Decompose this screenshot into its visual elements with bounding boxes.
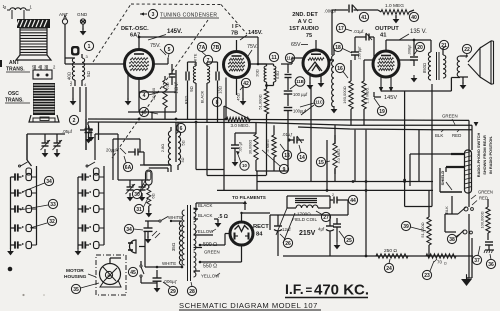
to filaments — [196, 195, 266, 210]
callout 35 — [71, 283, 99, 294]
wave-band switch bank 1 — [7, 162, 36, 255]
svg-text:BLK: BLK — [435, 133, 443, 138]
svg-text:4Ω: 4Ω — [181, 157, 185, 162]
tube V5 RECT 84 — [230, 222, 253, 245]
215V label — [299, 230, 316, 237]
svg-text:38: 38 — [449, 237, 455, 243]
svg-text:11B: 11B — [296, 79, 303, 84]
svg-text:16: 16 — [337, 66, 343, 72]
svg-text:TO FILAMENTS: TO FILAMENTS — [232, 195, 266, 200]
svg-text:WHITE: WHITE — [193, 53, 198, 66]
resistor 1.0MEG top — [378, 3, 414, 23]
45ohm + ground — [236, 85, 247, 105]
DET-OSC label — [121, 26, 149, 39]
osc pins + ground — [70, 82, 87, 150]
svg-text:84: 84 — [256, 232, 263, 238]
svg-text:20: 20 — [417, 45, 423, 51]
svg-text:BLK: BLK — [444, 206, 449, 214]
svg-text:145V.: 145V. — [248, 30, 263, 36]
callout 26 — [280, 234, 293, 248]
callout 34 — [22, 176, 54, 192]
svg-text:14: 14 — [299, 155, 305, 161]
callout 6A — [123, 156, 132, 172]
svg-text:850Ω: 850Ω — [422, 63, 427, 73]
svg-text:OSC: OSC — [8, 91, 19, 97]
svg-text:42: 42 — [243, 81, 249, 87]
callout 23 — [422, 261, 434, 280]
electrolytic 4uf — [318, 215, 334, 256]
svg-text:YELLOW: YELLOW — [201, 274, 220, 279]
svg-text:OUTPUT: OUTPUT — [375, 26, 399, 32]
resistor 30000 — [249, 123, 259, 172]
oscillator transformer (canned) — [29, 83, 59, 122]
svg-text:1.0 MEG.: 1.0 MEG. — [365, 87, 370, 104]
output transformer — [437, 46, 469, 89]
svg-text:20µµf: 20µµf — [106, 148, 117, 153]
resistor 160000 — [342, 60, 353, 109]
output label — [375, 26, 399, 39]
ballast coil 35ohm — [171, 221, 182, 265]
callout 45 — [128, 267, 137, 276]
svg-text:7: 7 — [207, 58, 210, 64]
svg-text:.006µƒ: .006µƒ — [163, 279, 178, 284]
svg-text:26: 26 — [285, 241, 291, 247]
svg-text:7A: 7A — [199, 45, 206, 51]
svg-text:ANT: ANT — [9, 60, 19, 66]
svg-text:RADIO-PHONO SWITCH: RADIO-PHONO SWITCH — [476, 133, 481, 178]
svg-text:5Ω: 5Ω — [86, 70, 91, 76]
RECT label — [253, 224, 269, 238]
svg-text:3: 3 — [152, 12, 155, 18]
OSC TRANS. label — [5, 91, 30, 104]
switch to ground — [461, 214, 472, 286]
callout 1 — [84, 41, 93, 50]
svg-text:23: 23 — [424, 273, 430, 279]
svg-text:10: 10 — [242, 163, 247, 168]
svg-text:75V.: 75V. — [247, 44, 258, 50]
svg-text:44: 44 — [350, 198, 356, 204]
bank wires — [27, 134, 95, 166]
svg-text:51,000Ω: 51,000Ω — [258, 94, 263, 109]
callout 17 + .01uf cap — [336, 23, 374, 40]
volume control coil wiper — [331, 48, 338, 113]
MOTOR HOUSING label — [64, 268, 96, 280]
svg-text:2ND. DET: 2ND. DET — [292, 12, 318, 18]
resistor 3meg label — [224, 106, 251, 128]
svg-text:2: 2 — [73, 118, 76, 124]
cap 25 path — [333, 218, 341, 249]
svg-text:41: 41 — [361, 15, 367, 21]
svg-text:5: 5 — [168, 47, 171, 53]
resistor 51000 — [258, 89, 269, 176]
65V label — [291, 42, 308, 48]
grid cap connector — [71, 46, 80, 56]
svg-text:36: 36 — [488, 262, 494, 268]
svg-text:160,000Ω: 160,000Ω — [342, 86, 347, 103]
svg-text:DET.-OSC.: DET.-OSC. — [121, 26, 149, 32]
callout 44 — [348, 195, 357, 204]
svg-text:100,000Ω: 100,000Ω — [480, 211, 485, 228]
svg-text:SHIELD: SHIELD — [440, 171, 445, 186]
svg-text:250 Ω: 250 Ω — [384, 248, 397, 254]
tube V4 OUTPUT 41 — [373, 51, 399, 77]
svg-text:34: 34 — [46, 179, 52, 185]
callout 7 — [202, 52, 213, 65]
svg-text:135 V.: 135 V. — [410, 29, 427, 35]
svg-text:37: 37 — [474, 258, 480, 264]
line cap — [144, 221, 161, 243]
callout 25 — [339, 231, 354, 245]
callout 5 — [164, 44, 173, 58]
svg-text:11: 11 — [271, 55, 277, 61]
callout 29 — [163, 282, 178, 296]
svg-text:4.0 MEG: 4.0 MEG — [337, 148, 341, 163]
svg-text:1700Ω: 1700Ω — [297, 212, 311, 217]
callout 32 — [30, 216, 57, 228]
svg-text:TUNING CONDENSER: TUNING CONDENSER — [160, 13, 217, 19]
svg-text:11C: 11C — [315, 100, 322, 105]
svg-text:215V: 215V — [299, 230, 316, 237]
motor — [100, 258, 122, 287]
svg-text:.5 Ω: .5 Ω — [218, 214, 228, 220]
svg-text:145V.: 145V. — [167, 29, 182, 35]
scan artifacts — [0, 60, 45, 296]
svg-text:1.0 MEG: 1.0 MEG — [385, 3, 404, 9]
callout 19 — [374, 98, 387, 116]
svg-text:5Ω: 5Ω — [181, 140, 186, 145]
svg-text:BLACK: BLACK — [201, 90, 205, 103]
svg-text:YELLOW: YELLOW — [195, 229, 214, 234]
svg-text:65V: 65V — [291, 42, 301, 48]
oscillator coil — [140, 122, 186, 172]
svg-text:Ω: Ω — [444, 262, 447, 266]
wave-band switch bank 2 — [75, 162, 104, 255]
callout 39 — [401, 221, 426, 231]
svg-text:15: 15 — [318, 160, 324, 166]
callout 4B — [139, 107, 158, 116]
v2 down wires — [225, 78, 227, 120]
caps 100uuf pair — [284, 75, 308, 146]
svg-text:.01µf.: .01µf. — [353, 29, 365, 34]
svg-text:RECT: RECT — [253, 224, 269, 230]
tuning condenser dashed gang linkage — [93, 4, 247, 158]
cap .006uf coupling — [324, 5, 378, 56]
callout 14 — [297, 145, 306, 162]
cap 20uuf — [106, 139, 171, 180]
svg-text:3.0 MEG.: 3.0 MEG. — [231, 123, 250, 128]
resistor 1.0meg — [362, 60, 370, 109]
svg-text:2: 2 — [332, 193, 334, 197]
2nd det label — [289, 12, 319, 39]
svg-text:20Ω: 20Ω — [255, 69, 260, 76]
ANT TRANS. label — [6, 60, 30, 73]
145V label IF — [240, 30, 263, 40]
svg-text:BLACK: BLACK — [198, 213, 212, 218]
callout 36 — [486, 254, 495, 269]
field coil 1700 — [276, 196, 330, 243]
svg-text:250 µµf: 250 µµf — [358, 46, 362, 60]
antenna transformer (canned) — [3, 4, 52, 60]
callout 42 — [240, 78, 251, 90]
svg-text:18: 18 — [335, 45, 341, 51]
svg-text:MOTOR: MOTOR — [66, 268, 84, 274]
callout 24 — [384, 259, 393, 273]
callout 2 — [69, 115, 78, 124]
svg-text:41: 41 — [380, 33, 387, 39]
callout 7B — [211, 42, 220, 51]
svg-text:.5 MEG: .5 MEG — [265, 139, 270, 153]
svg-text:70: 70 — [437, 260, 442, 265]
phono switch contacts — [445, 207, 473, 238]
callout 22 — [462, 44, 471, 58]
blk wire — [444, 196, 452, 214]
V4 wires — [364, 39, 460, 101]
osc section wires — [128, 92, 176, 172]
V1 wires — [86, 36, 258, 106]
svg-text:145V: 145V — [384, 95, 397, 101]
callout 20 — [415, 42, 425, 54]
cap .05 network — [224, 106, 256, 190]
svg-text:.05µf: .05µf — [62, 129, 73, 134]
shield — [440, 168, 462, 192]
callout 28 — [187, 282, 196, 296]
svg-text:12µf: 12µf — [282, 227, 291, 232]
callout 31 — [134, 198, 148, 214]
svg-text:30: 30 — [134, 192, 140, 198]
svg-text:35Ω: 35Ω — [171, 242, 176, 251]
transformer taps labels — [194, 203, 228, 279]
svg-text:6A: 6A — [125, 165, 132, 171]
svg-text:ANT: ANT — [59, 12, 68, 17]
svg-text:6: 6 — [180, 126, 183, 132]
svg-text:500 Ω: 500 Ω — [203, 242, 217, 248]
svg-text:A V C: A V C — [298, 19, 313, 25]
resistor 51000 b — [420, 191, 431, 256]
dial lamp + 6ohm resistor — [145, 170, 155, 217]
V2 wires — [237, 40, 267, 95]
callout 40 — [409, 12, 418, 21]
svg-text:25: 25 — [346, 238, 352, 244]
ANT terminal — [59, 12, 68, 58]
svg-text:21: 21 — [441, 43, 447, 49]
terminal strip — [32, 65, 56, 80]
svg-text:24: 24 — [386, 266, 392, 272]
electrolytic 12uf — [274, 215, 291, 256]
callout 11C — [300, 97, 324, 115]
V3 wires — [288, 40, 334, 89]
callout 13 — [280, 144, 292, 160]
svg-text:34: 34 — [126, 227, 132, 233]
svg-text:7B: 7B — [213, 45, 220, 51]
misc verticals — [85, 95, 208, 162]
tube V1 DET-OSC 6A7 — [125, 50, 154, 79]
bottom bus + resistors 250/70 — [283, 248, 473, 266]
callout 8 — [212, 97, 221, 106]
svg-text:75: 75 — [306, 33, 312, 39]
75V label — [150, 43, 166, 55]
svg-text:13: 13 — [284, 153, 290, 159]
white wire bottom — [145, 261, 183, 268]
callout 11 — [269, 52, 278, 61]
callout 15 — [316, 157, 330, 166]
svg-text:8: 8 — [216, 100, 219, 106]
svg-text:1ST AUDIO: 1ST AUDIO — [289, 26, 319, 32]
callout 3 TUNING CONDENSER — [140, 9, 219, 18]
IF 470KC caption — [285, 281, 369, 299]
svg-text:75V.: 75V. — [150, 43, 161, 49]
IF transformer T1 — [184, 53, 223, 122]
svg-text:40Ω: 40Ω — [67, 71, 72, 80]
callout 33 — [20, 199, 58, 210]
svg-text:4µf: 4µf — [318, 227, 325, 232]
callout 38r — [447, 234, 460, 244]
svg-text:FIELD COIL: FIELD COIL — [292, 217, 317, 222]
svg-text:SCHEMATIC DIAGRAM MODEL 107: SCHEMATIC DIAGRAM MODEL 107 — [179, 301, 318, 310]
model caption — [179, 301, 321, 310]
cap 110uuf — [166, 64, 178, 94]
svg-text:6Ω: 6Ω — [151, 193, 156, 198]
cap .008uf — [408, 44, 419, 83]
145V vertical wire — [174, 70, 179, 112]
green blk red wires — [410, 114, 478, 208]
svg-text:550 Ω: 550 Ω — [203, 264, 217, 270]
resistor 4meg — [333, 135, 341, 174]
tuning gang caps — [118, 180, 150, 201]
V5 wires — [199, 212, 270, 264]
svg-text:HOUSING: HOUSING — [64, 274, 87, 280]
svg-text:GND: GND — [77, 12, 88, 17]
callout 7A — [197, 42, 206, 51]
svg-text:7B: 7B — [231, 31, 238, 37]
callout 37 — [472, 246, 481, 265]
left wires — [65, 58, 118, 180]
radio-phono note — [476, 133, 493, 178]
callout 18 — [333, 42, 352, 53]
svg-text:RED: RED — [452, 133, 461, 138]
215 loop wires — [270, 200, 348, 230]
svg-text:1: 1 — [88, 44, 91, 50]
svg-text:IN RADIO POSITION.: IN RADIO POSITION. — [488, 136, 493, 174]
svg-text:.05 µf: .05 µf — [238, 141, 243, 152]
svg-text:33: 33 — [50, 202, 56, 208]
callout 34b — [124, 224, 143, 233]
svg-text:.01µƒ: .01µƒ — [282, 132, 293, 137]
svg-text:GREEN: GREEN — [204, 250, 220, 255]
green red labels 2 — [471, 190, 493, 206]
callout 4 — [139, 90, 160, 99]
callout 21 — [439, 40, 448, 49]
75V label IF — [247, 44, 258, 56]
svg-text:100 µµf: 100 µµf — [293, 92, 308, 97]
cap 250uuf — [351, 37, 375, 61]
svg-text:45: 45 — [130, 270, 136, 276]
motor switch — [140, 261, 157, 283]
svg-text:32: 32 — [49, 219, 55, 225]
antenna coil 40ohm/5ohm — [65, 54, 91, 86]
capacitor .05uf — [62, 127, 94, 142]
callout 11A — [285, 53, 294, 62]
svg-text:2.8Ω: 2.8Ω — [160, 144, 165, 153]
tube V2 IF 7B — [224, 52, 250, 78]
svg-text:31: 31 — [136, 207, 142, 213]
svg-text:BLACK: BLACK — [198, 203, 212, 208]
svg-text:19: 19 — [379, 109, 385, 115]
callout 11B — [290, 77, 305, 89]
callout 27 — [316, 211, 331, 222]
svg-text:I.F.: I.F. — [285, 281, 304, 297]
svg-text:.006µf: .006µf — [324, 9, 337, 14]
svg-text:GREEN: GREEN — [478, 190, 493, 195]
switch wafer — [465, 150, 472, 193]
svg-text:SHOWN FROM REAR: SHOWN FROM REAR — [482, 135, 487, 175]
callout 30 — [132, 181, 145, 199]
AC plug — [128, 232, 145, 267]
svg-text:4: 4 — [143, 93, 146, 99]
callout 6 — [176, 123, 186, 134]
svg-text:I F: I F — [232, 24, 239, 30]
cap .01 ave — [282, 132, 304, 144]
svg-text:39: 39 — [403, 224, 409, 230]
svg-text:40: 40 — [411, 15, 417, 21]
cap + chassis — [484, 242, 494, 253]
main horizontal buses — [88, 117, 472, 129]
svg-text:5.5Ω: 5.5Ω — [276, 71, 280, 79]
speaker — [468, 41, 494, 84]
svg-text:WHITE: WHITE — [162, 261, 176, 266]
resistor 10000 — [151, 76, 167, 119]
power switch top — [145, 215, 182, 222]
svg-text:29: 29 — [170, 289, 176, 295]
padder caps pair — [27, 134, 65, 160]
svg-text:17: 17 — [338, 26, 344, 32]
tube V3 75 — [303, 50, 329, 76]
svg-text:470 KC.: 470 KC. — [314, 282, 369, 299]
cap .006 line — [153, 270, 178, 292]
power transformer core+windings — [182, 205, 196, 281]
svg-text:=: = — [306, 285, 313, 297]
svg-text:.008µf: .008µf — [408, 44, 412, 56]
svg-text:28: 28 — [189, 289, 195, 295]
svg-text:35: 35 — [73, 287, 79, 293]
svg-text:13Ω: 13Ω — [218, 86, 223, 94]
svg-text:22: 22 — [464, 47, 470, 53]
svg-text:9: 9 — [283, 167, 286, 173]
svg-text:9Ω: 9Ω — [189, 86, 194, 91]
IF transformer T2 — [255, 64, 289, 89]
svg-text:RED: RED — [479, 196, 488, 201]
resistor 100000 — [480, 199, 491, 240]
output choke 850 — [414, 40, 431, 80]
svg-text:WHITE: WHITE — [168, 215, 182, 220]
svg-text:70Ω: 70Ω — [166, 82, 170, 89]
callout 16 — [335, 63, 348, 78]
mid buses — [196, 84, 433, 257]
avc wires — [257, 37, 260, 65]
callout 9 — [262, 150, 289, 174]
svg-text:100µµf: 100µµf — [293, 109, 307, 114]
callout 10 — [236, 151, 249, 170]
IF label — [231, 24, 239, 37]
svg-text:GREEN: GREEN — [442, 114, 458, 119]
135V label — [399, 29, 427, 40]
svg-text:27: 27 — [323, 215, 329, 221]
145V label — [148, 29, 182, 40]
motor dashed housing — [96, 255, 126, 295]
callout 41t — [359, 12, 368, 21]
GND terminal — [77, 12, 88, 35]
resistor .5meg — [265, 125, 276, 171]
svg-text:30,000Ω: 30,000Ω — [249, 140, 253, 155]
